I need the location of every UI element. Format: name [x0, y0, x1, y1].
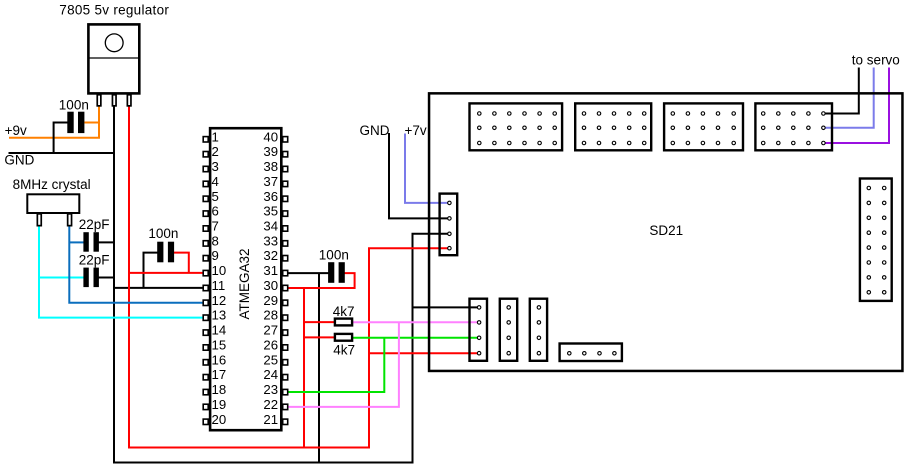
svg-text:4k7: 4k7: [333, 343, 355, 358]
wire +7v label (light purple) down to SD21 power connector pin 1: [405, 134, 449, 203]
wire +5v feed to resistor R1: [303, 321, 335, 323]
svg-text:31: 31: [263, 263, 278, 278]
regulator U1 pin 3 (output): [127, 95, 131, 106]
svg-text:1: 1: [212, 129, 219, 144]
svg-text:14: 14: [212, 323, 227, 338]
svg-text:10: 10: [212, 263, 227, 278]
SD21 servo header H1 (3x6): [470, 103, 563, 150]
IC U2 pin 36: [263, 189, 287, 204]
SD21 right expansion header J9 (2x8): [860, 179, 892, 301]
IC U2 pin 1: [203, 129, 219, 144]
svg-text:22: 22: [263, 397, 278, 412]
capacitor C1 100n right plate: [78, 112, 84, 133]
crystal X1 8MHz body: [27, 194, 79, 213]
IC U2 pin 12: [203, 293, 226, 308]
wire GND branch to SD21 header J5 pin 1: [413, 306, 480, 308]
SD21 servo header H3 (3x5): [664, 103, 743, 150]
svg-text:100n: 100n: [59, 98, 89, 113]
SD21 I2C header J5 (4x1): [470, 299, 488, 361]
svg-text:8: 8: [212, 233, 219, 248]
wire GND to ATMEGA32 pin 11: [113, 287, 204, 289]
IC U2 pin 11: [203, 278, 225, 293]
wire capacitor C4 right plate to +5v pin 10 line: [173, 253, 189, 273]
wire 22pF C2 right plate to GND vertical: [97, 241, 115, 243]
IC U2 pin 33: [263, 233, 287, 248]
IC U2 pin 9: [203, 248, 219, 263]
SD21 header J6 (4x1): [500, 299, 517, 361]
svg-text:ATMEGA32: ATMEGA32: [237, 248, 252, 319]
IC U2 pin 10: [203, 263, 226, 278]
wire +9v (orange) from +9v label to regulator pin 1: [9, 106, 99, 138]
wire blue branch to 22pF C2 left plate: [69, 241, 85, 243]
IC U2 pin 31: [263, 263, 287, 278]
wire GND label (right) down to SD21 power connector pin 2: [389, 133, 449, 218]
crystal X1 left pin: [37, 214, 41, 226]
svg-text:SD21: SD21: [649, 223, 683, 238]
svg-text:35: 35: [263, 204, 278, 219]
svg-text:37: 37: [263, 174, 278, 189]
capacitor C2 22pF right plate: [94, 232, 99, 252]
wire +5v branch to SD21 header J5 pin 4: [369, 352, 479, 354]
crystal X1 right pin: [68, 214, 72, 226]
svg-text:8MHz crystal: 8MHz crystal: [13, 177, 91, 192]
SD21 header J7 (4x1): [530, 299, 547, 361]
capacitor C3 22pF left plate: [83, 268, 88, 288]
svg-text:+7v: +7v: [405, 123, 427, 138]
IC U2 pin 26: [263, 338, 287, 353]
svg-text:39: 39: [263, 144, 278, 159]
svg-text:20: 20: [212, 412, 227, 427]
regulator U1 pin 2 (ground): [112, 95, 116, 106]
svg-text:16: 16: [212, 352, 227, 367]
wire SDA (green) resistor R2 to SD21 header J5 pin 3: [352, 337, 479, 339]
svg-text:23: 23: [263, 382, 278, 397]
capacitor C2 22pF left plate: [83, 232, 88, 252]
svg-text:13: 13: [212, 308, 227, 323]
svg-text:30: 30: [263, 278, 278, 293]
wire +5v ATMEGA32 pin 30 net with capacitor C5 right plate: [286, 273, 355, 288]
IC U2 pin 7: [203, 219, 219, 234]
wire +5v feed to resistor R2: [303, 336, 335, 338]
svg-text:22pF: 22pF: [79, 217, 110, 232]
wire black servo signal from SD21 header H4 to servo: [824, 68, 859, 114]
svg-text:6: 6: [212, 204, 219, 219]
svg-text:22pF: 22pF: [79, 252, 110, 267]
svg-text:38: 38: [263, 159, 278, 174]
wire green branch down to ATMEGA32 pin 23: [286, 338, 384, 392]
wire 22pF C3 right plate to GND vertical: [97, 277, 115, 279]
svg-text:4: 4: [212, 174, 219, 189]
regulator U1 mounting hole: [105, 34, 123, 52]
IC U2 pin 3: [203, 159, 219, 174]
IC U2 pin 8: [203, 233, 219, 248]
wire crystal right pin (blue) to ATMEGA32 pin 12: [69, 225, 204, 303]
svg-text:34: 34: [263, 219, 278, 234]
wire ATMEGA32 pin 31 to capacitor C5 left plate: [286, 272, 330, 274]
svg-text:7805 5v regulator: 7805 5v regulator: [59, 2, 169, 17]
capacitor C3 22pF right plate: [94, 268, 99, 288]
svg-text:27: 27: [263, 323, 278, 338]
IC U2 pin 17: [203, 367, 226, 382]
IC U2 pin 29: [263, 293, 287, 308]
svg-text:2: 2: [212, 144, 219, 159]
IC U2 pin 37: [263, 174, 287, 189]
svg-text:9: 9: [212, 248, 219, 263]
wire GND loop: regulator pin 2 down, across bottom, up to SD21 power connector pin 3: [114, 106, 449, 463]
wire GND drop from pin 31 line to bottom GND rail: [318, 273, 320, 462]
IC U2 pin 39: [263, 144, 287, 159]
svg-text:25: 25: [263, 352, 278, 367]
IC U2 pin 5: [203, 189, 219, 204]
svg-text:GND: GND: [360, 123, 390, 138]
IC U2 pin 19: [203, 397, 226, 412]
svg-text:GND: GND: [4, 153, 34, 168]
wire +5v drop from pin 30 line to bottom +5v rail: [303, 288, 305, 448]
SD21 power/I2C connector J1 (4x1): [440, 194, 458, 256]
IC U2 pin 20: [203, 412, 226, 427]
capacitor C4 100n left plate: [157, 242, 163, 263]
wire capacitor C1 left plate to GND line: [54, 123, 68, 155]
wire purple servo signal from SD21 header H4 to servo: [824, 68, 889, 144]
IC U2 ATMEGA32 body: [210, 128, 281, 430]
svg-text:11: 11: [212, 278, 226, 293]
wire cyan branch to 22pF C3 left plate: [39, 277, 85, 279]
regulator U1 tab divider line: [89, 57, 140, 59]
svg-text:19: 19: [212, 397, 227, 412]
SD21 servo header H2 (3x5): [575, 103, 651, 150]
IC U2 pin 4: [203, 174, 219, 189]
IC U2 pin 14: [203, 323, 226, 338]
wire orange branch capacitor C1 right plate to +9v vertical: [84, 122, 100, 124]
IC U2 pin 40: [263, 129, 287, 144]
IC U2 pin 25: [263, 352, 287, 367]
svg-text:to servo: to servo: [852, 53, 900, 68]
svg-text:24: 24: [263, 367, 278, 382]
svg-text:36: 36: [263, 189, 278, 204]
regulator U1 7805 body: [88, 24, 139, 93]
svg-text:21: 21: [263, 412, 278, 427]
IC U2 pin 32: [263, 248, 287, 263]
svg-text:29: 29: [263, 293, 278, 308]
wire crystal left pin (cyan) to ATMEGA32 pin 13: [39, 225, 204, 318]
svg-text:28: 28: [263, 308, 278, 323]
regulator U1 pin 1 (input): [97, 95, 101, 106]
IC U2 pin 23: [263, 382, 287, 397]
svg-text:40: 40: [263, 129, 278, 144]
IC U2 pin 24: [263, 367, 287, 382]
SD21 header J8 (1x4): [560, 344, 622, 362]
IC U2 pin 22: [263, 397, 287, 412]
svg-text:5: 5: [212, 189, 219, 204]
svg-text:7: 7: [212, 219, 219, 234]
SD21 board outline: [429, 93, 902, 371]
IC U2 pin 27: [263, 323, 287, 338]
svg-text:17: 17: [212, 367, 227, 382]
wire SCL (pink) resistor R1 to SD21 header J5 pin 2: [352, 321, 479, 323]
wire +5v (red) regulator pin 3 down, across bottom, up to SD21 power connector pin 4: [129, 106, 449, 448]
svg-text:3: 3: [212, 159, 219, 174]
SD21 servo header H4 (3x5): [755, 103, 832, 150]
svg-text:12: 12: [212, 293, 227, 308]
capacitor C5 100n left plate: [328, 262, 334, 283]
IC U2 pin 34: [263, 219, 287, 234]
capacitor C1 100n left plate: [67, 112, 73, 133]
svg-text:100n: 100n: [319, 248, 349, 263]
resistor R1 4k7 body: [335, 319, 352, 326]
IC U2 pin 18: [203, 382, 226, 397]
IC U2 pin 6: [203, 204, 219, 219]
wire +5v branch to ATMEGA32 pin 10: [128, 272, 204, 274]
capacitor C5 100n right plate: [339, 262, 345, 283]
wire pink branch down to ATMEGA32 pin 22: [286, 322, 399, 407]
IC U2 pin 28: [263, 308, 287, 323]
IC U2 pin 35: [263, 204, 287, 219]
IC U2 pin 2: [203, 144, 219, 159]
svg-text:32: 32: [263, 248, 278, 263]
wire light purple servo signal from SD21 header H4 to servo: [824, 68, 874, 128]
wire GND from label to regulator pin 2 vertical: [9, 152, 115, 154]
wire capacitor C4 left plate down to pin 11 GND line: [144, 253, 159, 289]
svg-text:4k7: 4k7: [333, 304, 355, 319]
svg-text:15: 15: [212, 338, 227, 353]
resistor R2 4k7 body: [335, 334, 352, 341]
IC U2 pin 38: [263, 159, 287, 174]
svg-text:18: 18: [212, 382, 227, 397]
IC U2 pin 30: [263, 278, 287, 293]
IC U2 pin 13: [203, 308, 226, 323]
capacitor C4 100n right plate: [168, 242, 174, 263]
svg-text:+9v: +9v: [5, 123, 27, 138]
IC U2 pin 16: [203, 352, 226, 367]
IC U2 pin 15: [203, 338, 226, 353]
svg-text:33: 33: [263, 233, 278, 248]
svg-text:100n: 100n: [148, 226, 178, 241]
svg-text:26: 26: [263, 338, 278, 353]
IC U2 pin 21: [263, 412, 287, 427]
